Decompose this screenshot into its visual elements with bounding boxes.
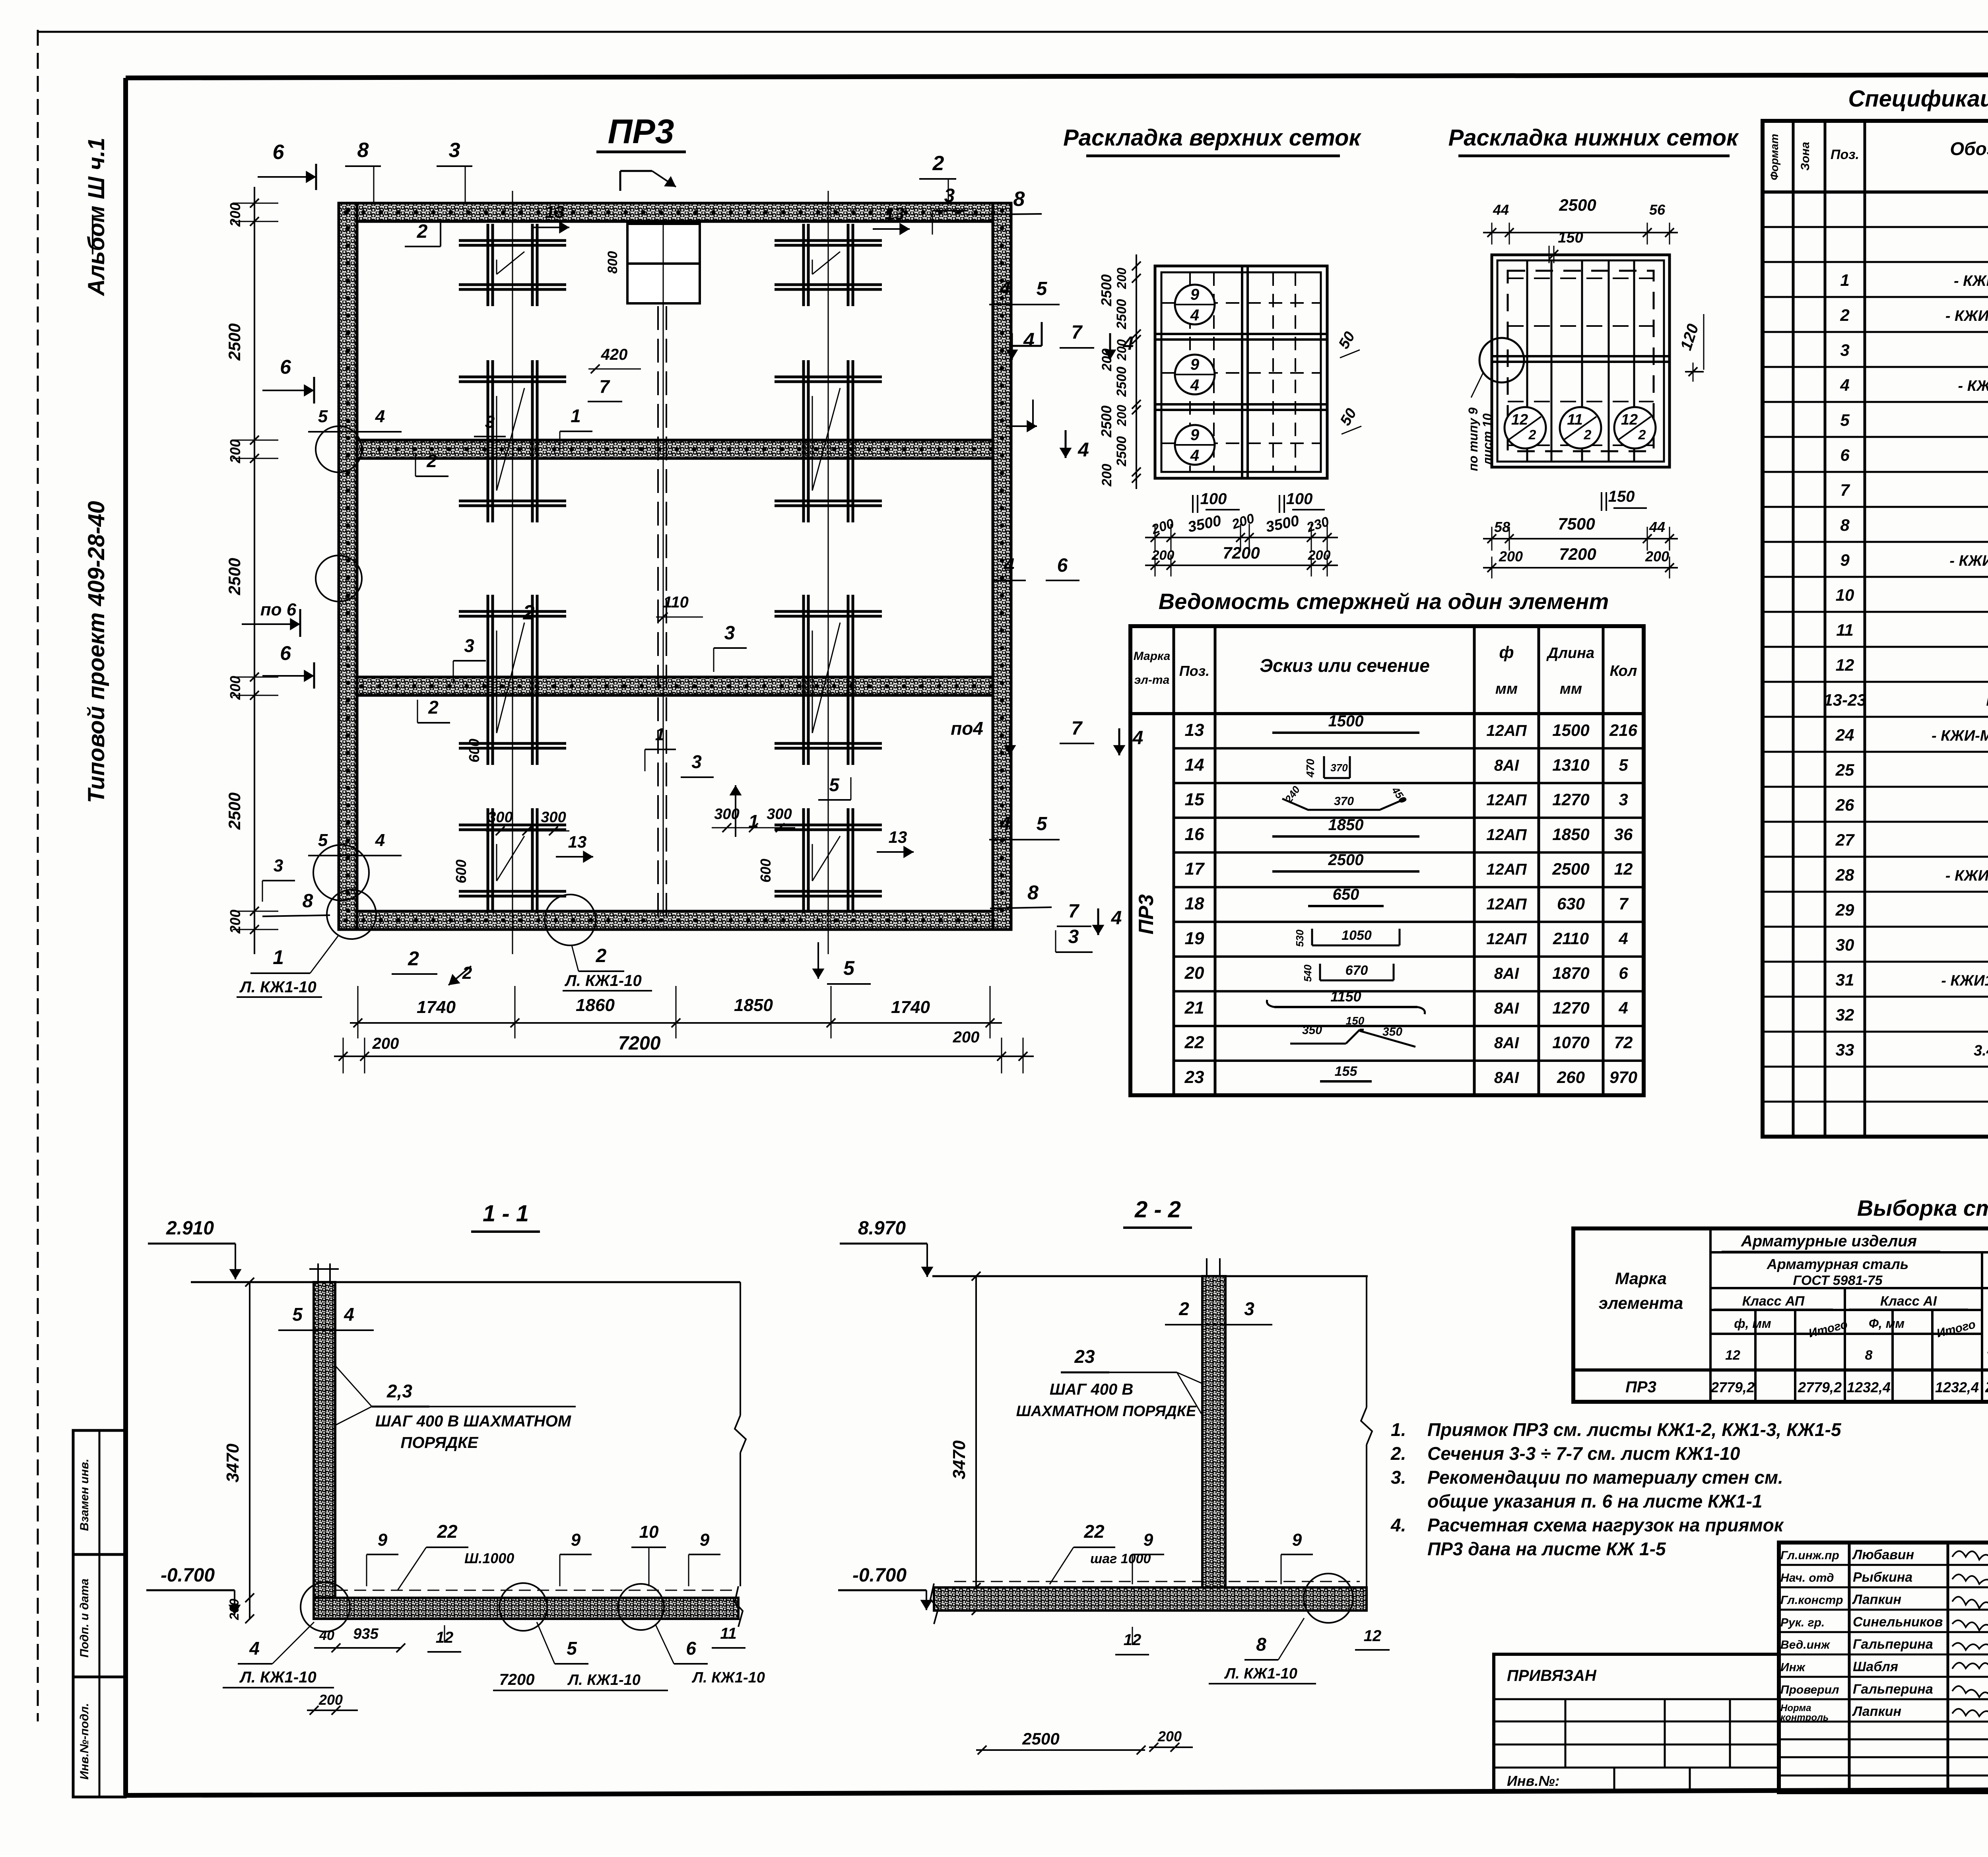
svg-text:470: 470 bbox=[1304, 759, 1316, 778]
plan labels top bbox=[258, 139, 1042, 215]
svg-text:5: 5 bbox=[1840, 411, 1850, 429]
svg-text:Спецификация элементов монол: Спецификация элементов монолитной констр… bbox=[1848, 86, 1988, 112]
svg-text:Инв.№-подл.: Инв.№-подл. bbox=[78, 1703, 91, 1780]
svg-text:Поз.: Поз. bbox=[1179, 663, 1209, 679]
svg-text:7500: 7500 bbox=[1558, 514, 1595, 533]
svg-text:200: 200 bbox=[1099, 464, 1114, 487]
svg-text:970: 970 bbox=[1609, 1068, 1637, 1087]
svg-text:6: 6 bbox=[273, 141, 285, 164]
svg-text:Л. КЖ1-10: Л. КЖ1-10 bbox=[1224, 1665, 1297, 1682]
svg-text:5: 5 bbox=[843, 957, 855, 979]
svg-text:элемента: элемента bbox=[1599, 1294, 1683, 1312]
mesh grid lower bottom dims bbox=[1483, 488, 1678, 578]
svg-text:155: 155 bbox=[1335, 1064, 1358, 1079]
svg-text:350: 350 bbox=[1382, 1025, 1402, 1038]
plan wall band top bbox=[339, 203, 1011, 221]
pilaster detail P8 bbox=[775, 808, 882, 913]
plan interior wall band 1 bbox=[357, 440, 993, 458]
svg-text:3: 3 bbox=[1068, 926, 1079, 947]
svg-text:4: 4 bbox=[1840, 376, 1849, 394]
bars table grid bbox=[1130, 626, 1644, 1095]
svg-text:3: 3 bbox=[1244, 1298, 1254, 1319]
svg-text:8АІ: 8АІ bbox=[1494, 965, 1519, 982]
svg-text:2779,2: 2779,2 bbox=[1710, 1379, 1755, 1395]
svg-text:8: 8 bbox=[1027, 881, 1039, 904]
svg-text:44: 44 bbox=[1649, 519, 1665, 535]
svg-text:Арматурная сталь: Арматурная сталь bbox=[1767, 1256, 1909, 1272]
plan band reinforcement dots bbox=[344, 209, 1004, 923]
section 1-1 elevation mark -0.700 bbox=[146, 1565, 241, 1615]
svg-text:8АІ: 8АІ bbox=[1494, 757, 1519, 774]
svg-text:12: 12 bbox=[1364, 1627, 1382, 1645]
svg-text:2 - 2: 2 - 2 bbox=[1134, 1197, 1181, 1222]
svg-text:Проверил: Проверил bbox=[1780, 1683, 1839, 1696]
svg-text:3: 3 bbox=[1619, 790, 1628, 809]
svg-text:Ф, мм: Ф, мм bbox=[1869, 1316, 1905, 1331]
svg-text:200: 200 bbox=[1114, 405, 1129, 427]
svg-text:Ведомость стержней на один: Ведомость стержней на один элемент bbox=[1159, 589, 1609, 614]
svg-text:9: 9 bbox=[1190, 426, 1200, 444]
svg-text:22: 22 bbox=[1184, 1033, 1204, 1052]
plan centre dashed axis bbox=[657, 306, 659, 929]
svg-text:31: 31 bbox=[1836, 970, 1854, 989]
svg-text:13: 13 bbox=[545, 202, 565, 222]
section 1-1 bottom leaders bbox=[223, 1622, 765, 1715]
svg-text:13: 13 bbox=[1185, 720, 1204, 740]
svg-text:8АІ: 8АІ bbox=[1494, 999, 1519, 1017]
svg-text:4: 4 bbox=[249, 1638, 260, 1659]
svg-text:5: 5 bbox=[318, 407, 328, 426]
svg-text:200: 200 bbox=[1645, 548, 1669, 565]
svg-text:ШАГ 400 В ШАХМАТНОМ: ШАГ 400 В ШАХМАТНОМ bbox=[375, 1413, 572, 1430]
section 1-1 title bbox=[471, 1201, 540, 1232]
svg-text:4: 4 bbox=[1190, 447, 1199, 464]
svg-text:Поз.: Поз. bbox=[1831, 147, 1859, 162]
plan leader KZh1-10 bottom-mid bbox=[392, 945, 652, 991]
svg-text:44: 44 bbox=[1493, 202, 1509, 218]
svg-text:540: 540 bbox=[1302, 964, 1314, 982]
svg-text:1232,4: 1232,4 bbox=[1935, 1379, 1979, 1395]
svg-text:8: 8 bbox=[1013, 188, 1025, 211]
svg-text:Гальперина: Гальперина bbox=[1853, 1682, 1933, 1697]
svg-text:1270: 1270 bbox=[1552, 790, 1589, 809]
svg-text:2500: 2500 bbox=[1114, 299, 1129, 330]
svg-text:Раскладка верхних сеток: Раскладка верхних сеток bbox=[1063, 125, 1361, 151]
svg-text:1740: 1740 bbox=[891, 997, 930, 1017]
svg-text:Выборка стали на один эле: Выборка стали на один элемент, кг bbox=[1857, 1195, 1988, 1221]
mesh grid lower mark circles bbox=[1505, 407, 1546, 448]
svg-text:- КЖИ1 - С18÷С24: - КЖИ1 - С18÷С24 bbox=[1945, 308, 1988, 324]
svg-text:1850: 1850 bbox=[734, 995, 773, 1015]
svg-text:40: 40 bbox=[319, 1628, 334, 1643]
svg-text:Рук. гр.: Рук. гр. bbox=[1780, 1616, 1825, 1629]
outer trim border bbox=[38, 31, 1988, 33]
section 1-1 vertical dim 3470 bbox=[223, 1278, 254, 1623]
svg-text:4: 4 bbox=[1618, 998, 1628, 1017]
svg-text:- КЖИ1-МН8÷МН13: - КЖИ1-МН8÷МН13 bbox=[1941, 972, 1988, 989]
svg-text:2500: 2500 bbox=[1114, 436, 1129, 467]
svg-text:ПОРЯДКЕ: ПОРЯДКЕ bbox=[401, 1434, 479, 1451]
section 2-2 wall labels 2 3 bbox=[1165, 1298, 1272, 1325]
section 2-2 top reference line bbox=[932, 1275, 1368, 1277]
section 2-2 bottom leaders bbox=[976, 1618, 1390, 1754]
mesh grid upper dims row1 bbox=[1145, 511, 1338, 551]
svg-text:12АП: 12АП bbox=[1486, 826, 1527, 844]
svg-text:4: 4 bbox=[1077, 439, 1089, 461]
svg-text:2: 2 bbox=[408, 947, 419, 970]
svg-text:7: 7 bbox=[599, 376, 610, 397]
svg-text:16: 16 bbox=[1185, 825, 1204, 844]
svg-text:1270: 1270 bbox=[1552, 998, 1589, 1017]
section 2-2 title bbox=[1123, 1197, 1192, 1228]
pilaster detail P6 bbox=[775, 595, 882, 765]
svg-text:12: 12 bbox=[1621, 411, 1638, 428]
svg-text:22: 22 bbox=[437, 1521, 458, 1542]
svg-text:100: 100 bbox=[1200, 490, 1227, 508]
svg-text:Гл.инж.пр: Гл.инж.пр bbox=[1780, 1549, 1839, 1562]
section 1-1 wall labels 5 4 bbox=[278, 1304, 374, 1330]
svg-text:2: 2 bbox=[1584, 427, 1592, 442]
svg-text:7: 7 bbox=[1068, 901, 1080, 922]
svg-text:4: 4 bbox=[1190, 307, 1199, 324]
svg-text:2.: 2. bbox=[1390, 1443, 1406, 1464]
svg-text:ШАГ 400 В: ШАГ 400 В bbox=[1050, 1381, 1133, 1398]
svg-text:ПРИВЯЗАН: ПРИВЯЗАН bbox=[1507, 1667, 1597, 1684]
svg-text:200: 200 bbox=[1499, 548, 1523, 565]
svg-text:1500: 1500 bbox=[1552, 721, 1589, 739]
svg-text:ШАХМАТНОМ ПОРЯДКЕ: ШАХМАТНОМ ПОРЯДКЕ bbox=[1016, 1403, 1197, 1420]
svg-text:Сечения 3-3 ÷ 7-7 см. лист К: Сечения 3-3 ÷ 7-7 см. лист КЖ1-10 bbox=[1427, 1443, 1740, 1464]
svg-text:3: 3 bbox=[464, 635, 474, 656]
svg-text:Рыбкина: Рыбкина bbox=[1853, 1570, 1912, 1585]
svg-text:2500: 2500 bbox=[1328, 851, 1364, 869]
svg-text:11: 11 bbox=[1836, 621, 1854, 639]
svg-text:8: 8 bbox=[1256, 1634, 1266, 1655]
svg-text:- КЖИ1-С25÷С39: - КЖИ1-С25÷С39 bbox=[1949, 553, 1988, 569]
svg-text:2: 2 bbox=[932, 152, 944, 175]
svg-text:370: 370 bbox=[1334, 795, 1354, 808]
svg-text:7: 7 bbox=[1072, 718, 1083, 739]
svg-text:Инв.№:: Инв.№: bbox=[1507, 1773, 1560, 1789]
svg-text:ф, мм: ф, мм bbox=[1734, 1316, 1771, 1331]
svg-text:мм: мм bbox=[1560, 681, 1582, 697]
plan labels interior bbox=[405, 185, 1093, 984]
svg-text:200: 200 bbox=[318, 1692, 343, 1708]
svg-text:Л. КЖ1-10: Л. КЖ1-10 bbox=[564, 972, 641, 990]
svg-text:2: 2 bbox=[596, 945, 607, 966]
svg-text:8: 8 bbox=[303, 891, 313, 912]
svg-text:5: 5 bbox=[829, 774, 840, 795]
mesh grid lower top dims bbox=[1483, 196, 1678, 263]
svg-text:7: 7 bbox=[1072, 322, 1083, 343]
svg-text:Л. КЖ1-10: Л. КЖ1-10 bbox=[691, 1669, 765, 1686]
svg-text:11: 11 bbox=[720, 1625, 737, 1642]
svg-text:150: 150 bbox=[1608, 488, 1635, 505]
svg-text:ПР3: ПР3 bbox=[1625, 1378, 1656, 1396]
steel table grid bbox=[1573, 1228, 1988, 1402]
svg-text:Марка: Марка bbox=[1615, 1269, 1667, 1288]
plan labels right side bbox=[951, 278, 1143, 935]
svg-text:18: 18 bbox=[1185, 894, 1204, 914]
pilaster detail P5 bbox=[459, 595, 566, 765]
svg-text:600: 600 bbox=[453, 860, 469, 883]
svg-text:Эскиз или сечение: Эскиз или сечение bbox=[1260, 655, 1430, 676]
privyazan box bbox=[1494, 1654, 1779, 1791]
svg-text:1070: 1070 bbox=[1552, 1033, 1589, 1052]
section 1-1 slab top labels bbox=[367, 1521, 720, 1590]
svg-text:1 - 1: 1 - 1 bbox=[483, 1201, 529, 1226]
svg-text:800: 800 bbox=[605, 251, 620, 274]
title block signature columns bbox=[1779, 1543, 1988, 1792]
svg-text:370: 370 bbox=[1330, 762, 1348, 774]
svg-text:200: 200 bbox=[227, 676, 243, 700]
svg-text:Подп. и дата: Подп. и дата bbox=[78, 1579, 91, 1658]
svg-text:2779,2: 2779,2 bbox=[1798, 1379, 1842, 1395]
section 2-2 wall bbox=[1202, 1258, 1225, 1611]
svg-text:1: 1 bbox=[273, 946, 284, 968]
svg-text:150: 150 bbox=[1558, 229, 1583, 246]
svg-text:3: 3 bbox=[724, 623, 735, 644]
svg-text:2: 2 bbox=[1840, 306, 1849, 324]
notes list bbox=[1390, 1419, 1842, 1559]
svg-text:8АІ: 8АІ bbox=[1494, 1034, 1519, 1052]
svg-text:9: 9 bbox=[1190, 286, 1200, 303]
svg-text:2.910: 2.910 bbox=[166, 1218, 214, 1239]
svg-text:Обозначение: Обозначение bbox=[1950, 138, 1988, 159]
svg-text:36: 36 bbox=[1614, 825, 1633, 844]
svg-text:6: 6 bbox=[280, 642, 291, 664]
svg-text:Зона: Зона bbox=[1799, 142, 1812, 171]
svg-text:10: 10 bbox=[1836, 586, 1854, 604]
svg-text:200: 200 bbox=[1099, 349, 1114, 372]
svg-text:300: 300 bbox=[767, 806, 792, 823]
svg-text:12: 12 bbox=[1836, 656, 1854, 674]
svg-text:8: 8 bbox=[357, 139, 369, 162]
svg-text:216: 216 bbox=[1609, 721, 1638, 739]
svg-text:1310: 1310 bbox=[1552, 755, 1589, 774]
svg-text:лист 10: лист 10 bbox=[1480, 413, 1495, 466]
svg-text:12АП: 12АП bbox=[1486, 896, 1527, 913]
section 1-1 elevation mark 2.910 bbox=[148, 1218, 241, 1279]
svg-text:Л. КЖ1-10: Л. КЖ1-10 bbox=[239, 978, 316, 996]
svg-text:11: 11 bbox=[1567, 411, 1582, 428]
mesh layout title lower bbox=[1448, 125, 1739, 156]
svg-text:Любавин: Любавин bbox=[1852, 1547, 1914, 1562]
svg-text:10: 10 bbox=[639, 1522, 659, 1542]
mesh grid upper mark circles bbox=[1175, 285, 1215, 324]
svg-text:2500: 2500 bbox=[1114, 367, 1129, 397]
svg-text:630: 630 bbox=[1557, 895, 1585, 913]
svg-text:6: 6 bbox=[686, 1638, 696, 1659]
svg-text:4.: 4. bbox=[1390, 1515, 1406, 1535]
svg-text:12АП: 12АП bbox=[1486, 722, 1527, 739]
svg-text:32: 32 bbox=[1836, 1005, 1854, 1024]
svg-text:3.: 3. bbox=[1391, 1467, 1406, 1488]
svg-text:Л. КЖ1-10: Л. КЖ1-10 bbox=[567, 1672, 641, 1688]
svg-text:6: 6 bbox=[280, 356, 291, 378]
svg-text:935: 935 bbox=[353, 1626, 379, 1642]
svg-text:260: 260 bbox=[1557, 1068, 1585, 1087]
svg-text:12АП: 12АП bbox=[1486, 861, 1527, 878]
svg-text:Шабля: Шабля bbox=[1853, 1659, 1898, 1675]
spec table header bbox=[1768, 134, 1988, 180]
svg-text:Гл.констр: Гл.констр bbox=[1780, 1594, 1843, 1607]
svg-text:8: 8 bbox=[1865, 1348, 1873, 1363]
svg-text:7200: 7200 bbox=[618, 1033, 661, 1054]
plan interior wall band 2 bbox=[357, 677, 993, 695]
svg-text:5: 5 bbox=[1619, 755, 1628, 774]
svg-text:4: 4 bbox=[1000, 813, 1011, 834]
svg-text:мм: мм bbox=[1495, 681, 1518, 697]
section 1-1 floor slab bbox=[314, 1282, 746, 1627]
svg-text:200: 200 bbox=[1114, 339, 1129, 361]
svg-text:350: 350 bbox=[1302, 1024, 1322, 1037]
svg-text:9: 9 bbox=[378, 1530, 388, 1550]
steel table data row bbox=[1625, 1378, 1988, 1396]
svg-text:2500: 2500 bbox=[225, 323, 244, 361]
svg-text:Класс АП: Класс АП bbox=[1742, 1294, 1805, 1309]
svg-text:3: 3 bbox=[944, 185, 955, 206]
svg-text:13: 13 bbox=[568, 832, 587, 851]
plan wall band bottom bbox=[339, 911, 1011, 929]
svg-text:Формат: Формат bbox=[1768, 134, 1780, 180]
svg-text:8: 8 bbox=[1840, 516, 1850, 534]
svg-text:1.: 1. bbox=[1391, 1419, 1406, 1440]
svg-text:100: 100 bbox=[1286, 490, 1313, 508]
svg-text:200: 200 bbox=[227, 203, 243, 227]
svg-text:эл-та: эл-та bbox=[1134, 673, 1170, 687]
svg-text:1050: 1050 bbox=[1342, 928, 1372, 943]
svg-text:9: 9 bbox=[1190, 356, 1200, 373]
svg-text:2,3: 2,3 bbox=[386, 1381, 412, 1401]
steel table headers bbox=[1599, 1230, 1988, 1363]
svg-text:Расчетная схема нагрузок на: Расчетная схема нагрузок на приямок bbox=[1427, 1515, 1784, 1535]
svg-text:1850: 1850 bbox=[1552, 825, 1589, 844]
svg-text:- КЖИ-С1÷С17: - КЖИ-С1÷С17 bbox=[1958, 378, 1988, 394]
svg-text:- КЖИ1-С1÷С17: - КЖИ1-С1÷С17 bbox=[1954, 273, 1988, 289]
plan leader KZh1-10 bottom-left bbox=[237, 935, 339, 997]
bars table sketches bbox=[1267, 712, 1425, 1081]
svg-text:8.970: 8.970 bbox=[858, 1218, 906, 1239]
svg-text:2500: 2500 bbox=[1552, 860, 1589, 878]
svg-text:9: 9 bbox=[1292, 1530, 1302, 1550]
svg-text:по типу 9: по типу 9 bbox=[1466, 407, 1480, 471]
svg-text:2: 2 bbox=[1638, 427, 1646, 442]
svg-text:6: 6 bbox=[1840, 446, 1850, 464]
svg-text:3470: 3470 bbox=[949, 1440, 969, 1479]
svg-text:1: 1 bbox=[571, 406, 581, 426]
svg-text:Норма: Норма bbox=[1780, 1703, 1811, 1713]
svg-text:по4: по4 bbox=[951, 718, 983, 739]
svg-text:2500: 2500 bbox=[1098, 274, 1114, 307]
title block lower empty rows bbox=[1779, 1739, 1988, 1776]
svg-text:33: 33 bbox=[1836, 1040, 1854, 1059]
svg-text:4: 4 bbox=[1000, 278, 1011, 299]
svg-text:200: 200 bbox=[227, 1599, 241, 1620]
svg-text:12: 12 bbox=[1511, 411, 1528, 428]
svg-text:Вед.инж: Вед.инж bbox=[1780, 1638, 1831, 1651]
svg-text:22: 22 bbox=[1083, 1521, 1105, 1542]
svg-text:Лапкин: Лапкин bbox=[1852, 1704, 1901, 1719]
svg-text:19: 19 bbox=[1185, 929, 1204, 948]
svg-text:6: 6 bbox=[1619, 964, 1628, 982]
spec table grid bbox=[1763, 121, 1988, 1137]
section 1-1 top reference line bbox=[191, 1281, 740, 1283]
svg-text:13: 13 bbox=[889, 828, 907, 846]
svg-text:2500: 2500 bbox=[225, 558, 244, 595]
svg-text:200: 200 bbox=[227, 439, 243, 464]
svg-text:общие указания п. 6 на лист: общие указания п. 6 на листе КЖ1-1 bbox=[1427, 1491, 1762, 1512]
svg-text:Приямок ПР3 см. листы КЖ1-2,: Приямок ПР3 см. листы КЖ1-2, КЖ1-3, КЖ1-… bbox=[1427, 1419, 1842, 1440]
plan title PR3 bbox=[596, 113, 686, 191]
section 2-2 slab top labels bbox=[1050, 1521, 1313, 1584]
svg-text:20: 20 bbox=[1184, 963, 1204, 983]
mesh grid lower bbox=[1492, 255, 1670, 467]
section 2-2 detail circle bbox=[1304, 1574, 1353, 1623]
mesh grid upper bottom 100 marks bbox=[1193, 490, 1325, 513]
title block signature rows text bbox=[1780, 1547, 1988, 1723]
svg-text:27: 27 bbox=[1835, 831, 1855, 849]
svg-text:200: 200 bbox=[1157, 1728, 1182, 1744]
svg-text:Класс АІ: Класс АІ bbox=[1880, 1294, 1938, 1309]
svg-text:5: 5 bbox=[1037, 278, 1048, 299]
svg-text:650: 650 bbox=[1333, 886, 1359, 903]
plan bottom dimension line axes bbox=[350, 986, 1002, 1038]
svg-text:8АІ: 8АІ bbox=[1494, 1069, 1519, 1087]
mesh grid upper 50 labels bbox=[1336, 329, 1361, 434]
svg-text:шаг 1000: шаг 1000 bbox=[1090, 1551, 1151, 1566]
svg-text:12АП: 12АП bbox=[1486, 930, 1527, 948]
svg-text:5: 5 bbox=[318, 831, 328, 850]
svg-text:530: 530 bbox=[1294, 929, 1306, 947]
svg-text:3.400-6/76: 3.400-6/76 bbox=[1974, 1042, 1988, 1059]
pilaster detail P1 bbox=[459, 224, 566, 306]
svg-text:25: 25 bbox=[1835, 761, 1854, 779]
svg-text:9: 9 bbox=[700, 1530, 710, 1550]
svg-text:420: 420 bbox=[601, 346, 628, 363]
svg-text:ПР3 дана на листе КЖ 1-5: ПР3 дана на листе КЖ 1-5 bbox=[1427, 1539, 1666, 1559]
svg-text:4: 4 bbox=[1111, 908, 1122, 929]
svg-text:200: 200 bbox=[953, 1028, 980, 1046]
svg-text:15: 15 bbox=[1185, 790, 1204, 809]
svg-text:-0.700: -0.700 bbox=[852, 1565, 907, 1586]
svg-text:200: 200 bbox=[1114, 268, 1129, 289]
svg-text:Лапкин: Лапкин bbox=[1852, 1592, 1901, 1607]
svg-text:1: 1 bbox=[655, 725, 665, 744]
svg-text:2: 2 bbox=[428, 697, 439, 718]
mesh grid upper dims row2 bbox=[1145, 543, 1338, 576]
section 1-1 wall bbox=[309, 1263, 339, 1598]
plan wall band left bbox=[339, 203, 357, 929]
plan inner edge lines bbox=[357, 221, 993, 911]
svg-text:1740: 1740 bbox=[417, 997, 456, 1017]
svg-text:5: 5 bbox=[1037, 813, 1048, 834]
section 1-1 shag note bbox=[335, 1366, 576, 1451]
svg-text:2: 2 bbox=[426, 450, 437, 471]
svg-text:13-23: 13-23 bbox=[1823, 691, 1866, 709]
title block outline bbox=[1779, 1543, 1988, 1792]
section 2-2 vertical dim 3470 bbox=[949, 1272, 1000, 1615]
svg-text:3: 3 bbox=[691, 751, 702, 772]
svg-text:600: 600 bbox=[466, 739, 482, 763]
svg-text:670: 670 bbox=[1345, 963, 1368, 978]
svg-text:13: 13 bbox=[885, 204, 905, 223]
pilaster detail P3 bbox=[459, 360, 566, 522]
svg-text:2500: 2500 bbox=[1559, 196, 1596, 214]
svg-text:Ш.1000: Ш.1000 bbox=[464, 1550, 514, 1566]
svg-text:3: 3 bbox=[1840, 341, 1849, 359]
svg-text:ПР3: ПР3 bbox=[1135, 894, 1158, 934]
